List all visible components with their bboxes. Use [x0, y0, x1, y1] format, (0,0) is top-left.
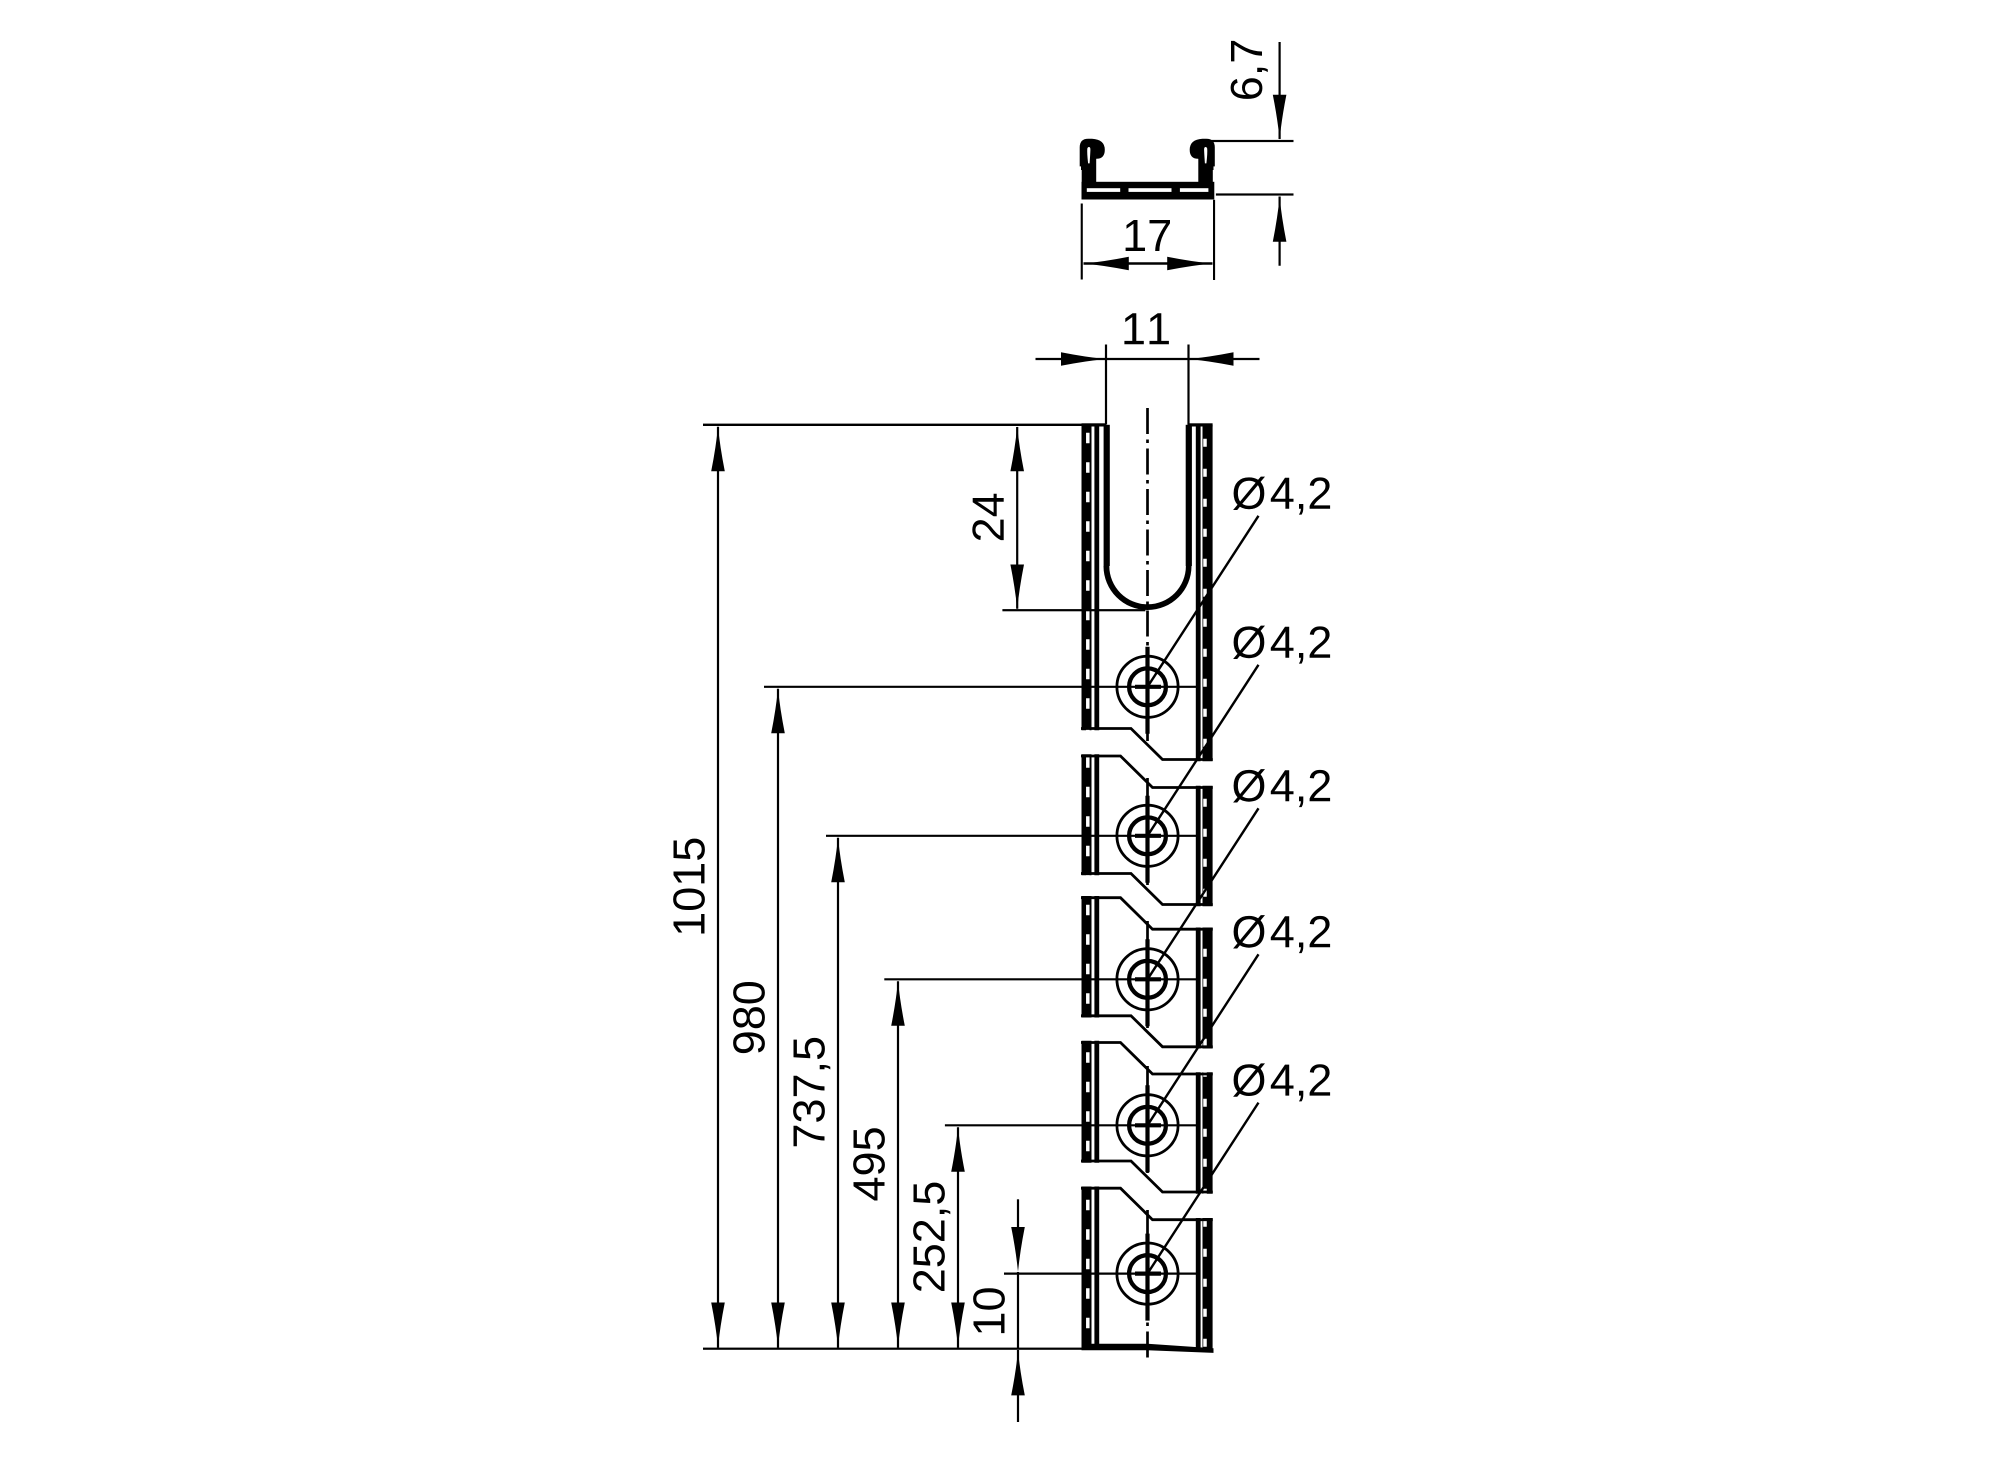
rail left inner contour line [1094, 425, 1099, 1349]
hole 1 diameter label O4,2 [1233, 477, 1265, 510]
profile inner white line with hidden-line dashes [1087, 188, 1209, 192]
dimension 495: bottom arrow [891, 1303, 905, 1348]
hole 2 counterbore circle [1117, 805, 1178, 866]
dimension 24: bottom extension line (slot depth) [1002, 609, 1145, 611]
dimension 6,7: dimension line arrows outside [1278, 42, 1280, 139]
dimension 10: lower line and arrow (outside) [1011, 1350, 1025, 1395]
hole 2 horizontal cross bar [1135, 834, 1161, 838]
rail segment 4 centerline (dash-dot) [1146, 1066, 1149, 1173]
rail segment 1 centerline (dash-dot) [1146, 408, 1149, 741]
hole 3 horizontal cross bar [1135, 977, 1161, 981]
rail break 1: lower Z-cut line [1081, 756, 1213, 788]
dimension 737,5: top arrow [831, 837, 845, 882]
hole 3 leader line [1148, 808, 1259, 979]
hole 5 vertical cross line [1145, 1234, 1149, 1321]
dimension 1015: top arrow [711, 426, 725, 471]
profile section: bottom web plate [1082, 182, 1215, 200]
hole 4 counterbore circle [1117, 1095, 1178, 1156]
hole 3 vertical cross line [1145, 939, 1149, 1026]
dimension 6,7: bottom extension line [1216, 193, 1294, 195]
dimension 495: dimension line [897, 981, 899, 1347]
dimension 6,7: value text (rotated) [1231, 41, 1268, 99]
dimension 495: top arrow [891, 981, 905, 1026]
hole 4 vertical cross line [1145, 1085, 1149, 1172]
hole 4 horizontal center/extension line [945, 1124, 1196, 1126]
dimension 1015: dimension line [717, 427, 719, 1348]
dimension 24: dimension line [1016, 427, 1018, 609]
dimension 980: dimension line [777, 689, 779, 1348]
hole 1 leader line [1148, 516, 1259, 687]
dimension 11: value text [1124, 313, 1169, 344]
hole 1 bore circle (diam 4,2) [1129, 668, 1166, 705]
hole 2 leader line [1148, 665, 1259, 836]
hole 4 leader line [1148, 954, 1259, 1125]
hole 1 horizontal center/extension line [764, 686, 1196, 688]
hole 5 bore circle (diam 4,2) [1129, 1255, 1166, 1292]
dimension 252,5: bottom arrow [951, 1303, 965, 1348]
dimension 737,5: bottom arrow [831, 1303, 845, 1348]
hole 3 bore circle (diam 4,2) [1129, 961, 1166, 998]
rail segment 3 centerline (dash-dot) [1146, 921, 1149, 1028]
rail top edge [1082, 423, 1107, 426]
dimension 252,5: top arrow [951, 1127, 965, 1172]
dimension 24: bottom arrow [1010, 565, 1024, 610]
dimension 24: top arrow [1010, 426, 1024, 471]
hole 5 horizontal cross bar [1135, 1271, 1161, 1275]
profile section: left wall [1082, 150, 1097, 184]
rail left band hidden-line white dashes [1086, 433, 1090, 1349]
rail break 4: lower Z-cut line [1081, 1188, 1213, 1220]
rail right inner contour line [1196, 425, 1201, 1349]
slot left wall (thick) [1104, 425, 1110, 566]
rail break 3: lower Z-cut line [1081, 1043, 1213, 1075]
dimension 11: left extension line [1105, 345, 1107, 425]
hole 3 horizontal center/extension line [884, 978, 1196, 980]
dimension 737,5: dimension line [837, 838, 839, 1348]
hole 1 horizontal cross bar [1135, 685, 1161, 689]
slot right wall (thick) [1186, 425, 1192, 566]
dimension 980: value text (rotated) [733, 982, 765, 1053]
rail break 1: upper Z-cut line [1081, 729, 1213, 760]
dimension 1015: bottom arrow [711, 1303, 725, 1348]
rail left outer contour line [1082, 425, 1084, 1349]
dimension 11: right extension line [1187, 345, 1189, 425]
rail segment 2 centerline (dash-dot) [1146, 778, 1149, 886]
hole 3 diameter label O4,2 [1233, 769, 1265, 802]
rail interruption break 2: white gap [1080, 875, 1214, 927]
profile lip inner white slivers and outer notches [1079, 147, 1216, 171]
rail segment 5 centerline (dash-dot) [1146, 1210, 1149, 1361]
dimension 252,5: dimension line [957, 1127, 959, 1347]
rail break 4: upper Z-cut line [1081, 1161, 1213, 1192]
profile section: right wall [1198, 150, 1213, 184]
dimension 980: top arrow [771, 688, 785, 733]
dimension 252,5: value text (rotated) [913, 1183, 950, 1291]
dimension 17: dimension line with arrows [1084, 262, 1213, 264]
rail interruption break 1: white gap [1080, 730, 1214, 786]
hole 2 vertical cross line [1145, 796, 1149, 883]
hole 3 counterbore circle [1117, 949, 1178, 1010]
hole 2 horizontal center/extension line [826, 835, 1196, 837]
hole 4 horizontal cross bar [1135, 1123, 1161, 1127]
dimension 495: value text (rotated) [853, 1128, 885, 1200]
hole 4 bore circle (diam 4,2) [1129, 1107, 1166, 1144]
dimension 10: value text (rotated) [973, 1288, 1005, 1333]
hole 1 counterbore circle [1117, 656, 1178, 717]
hole 2 diameter label O4,2 [1233, 626, 1265, 659]
bottom baseline extension line [703, 1348, 1083, 1350]
rail break 2: upper Z-cut line [1081, 874, 1213, 905]
hole 5 horizontal center/extension line [1004, 1272, 1196, 1274]
dimension 10: upper line and arrow (outside) [1017, 1199, 1019, 1232]
rail right outer contour line [1211, 425, 1213, 1349]
rail right band hidden-line white dashes [1203, 439, 1207, 1349]
hole 5 counterbore circle [1117, 1243, 1178, 1304]
dimension 17: value text [1126, 220, 1170, 251]
top extension line (overall length) [703, 424, 1082, 426]
rail left section band (filled) [1084, 425, 1092, 1349]
dimension 17: left extension line [1081, 204, 1083, 280]
hole 2 bore circle (diam 4,2) [1129, 817, 1166, 854]
dimension 24: value text (rotated) [972, 494, 1003, 540]
rail right section band (filled) [1203, 425, 1211, 1349]
rail interruption break 4: white gap [1080, 1163, 1214, 1218]
dimension 980: bottom arrow [771, 1303, 785, 1348]
rail interruption break 3: white gap [1080, 1018, 1214, 1073]
hole 5 diameter label O4,2 [1233, 1063, 1265, 1096]
profile section: right curled lip [1190, 139, 1215, 170]
dimension 17: right extension line [1213, 200, 1215, 280]
dimension 1015: value text (rotated) [673, 839, 705, 934]
hole 5 leader line [1148, 1103, 1259, 1274]
slot U-bottom arc [1104, 566, 1192, 610]
rail break 3: upper Z-cut line [1081, 1016, 1213, 1047]
hole 1 vertical cross line [1145, 647, 1149, 734]
dimension 6,7: top extension line [1206, 140, 1294, 142]
profile section: left curled lip [1080, 139, 1105, 170]
rail bottom edge (slanted at right) [1082, 1344, 1214, 1353]
dimension 11: dimension line and outside arrows [1036, 358, 1260, 360]
hole 4 diameter label O4,2 [1233, 915, 1265, 948]
rail break 2: lower Z-cut line [1081, 898, 1213, 930]
dimension 737,5: value text (rotated) [793, 1038, 830, 1146]
